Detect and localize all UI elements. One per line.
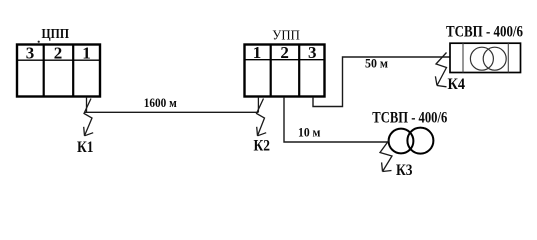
switchgear УПП [245,45,325,97]
svg-text:УПП: УПП [272,29,300,44]
svg-text:2: 2 [280,43,289,62]
svg-text:К1: К1 [77,139,94,156]
fault arrow K1 [84,99,94,136]
wire УПП cell 3 to T1 [313,57,450,107]
stray dot [38,41,40,43]
svg-text:К2: К2 [254,138,271,155]
fault arrow K3 [380,140,392,172]
svg-text:50 м: 50 м [365,57,388,71]
fault arrow K2 [257,99,267,136]
svg-text:ТСВП - 400/6: ТСВП - 400/6 [446,24,523,41]
svg-text:ЦПП: ЦПП [42,27,70,42]
svg-text:1: 1 [82,43,91,62]
svg-text:2: 2 [54,43,63,62]
svg-text:ТСВП - 400/6: ТСВП - 400/6 [372,109,447,126]
transformer T1 [450,43,521,72]
fault arrow K4 [435,53,446,87]
svg-text:К3: К3 [396,162,413,179]
wire stub from УПП cell 1 [257,97,259,112]
switchgear ЦПП [17,45,100,97]
transformer T2 [389,128,434,154]
svg-text:К4: К4 [448,76,466,93]
svg-text:3: 3 [26,43,35,62]
wire 1600 m cable [85,111,259,113]
wire УПП cell 2 to T2 [284,97,389,142]
svg-text:1: 1 [253,43,262,62]
svg-text:3: 3 [308,43,317,62]
svg-text:10 м: 10 м [298,124,321,139]
wire stub from ЦПП cell 1 [86,97,88,112]
svg-text:1600 м: 1600 м [144,96,177,110]
